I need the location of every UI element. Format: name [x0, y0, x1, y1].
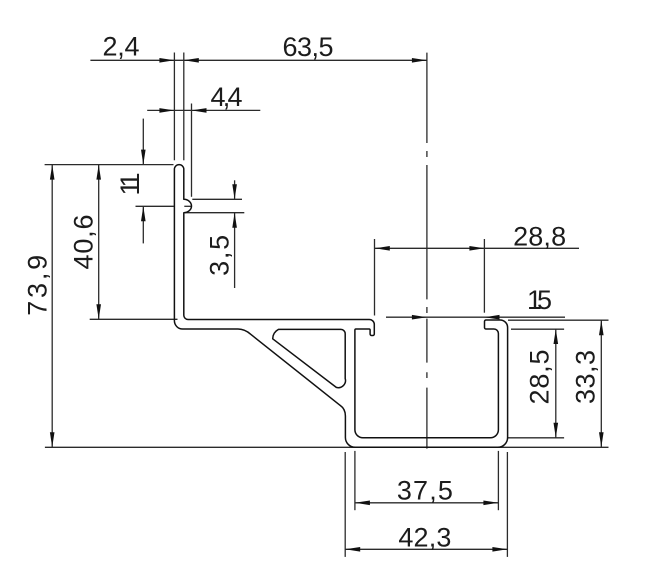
extension line bump center right (11) [184, 205, 191, 207]
arrow tip at inner left pointing left [355, 501, 370, 506]
dimension line 28,5 [555, 329, 557, 438]
dimension line 11 upper [142, 119, 144, 165]
dimension line 28,8 [375, 247, 579, 249]
dimension line 15 [386, 316, 565, 318]
extension line flange underside (28,5) [511, 328, 564, 330]
dimension line 42,3 [345, 548, 507, 550]
extension line right edge of top wall (2,4 / 63,5) [183, 53, 185, 161]
centerline (channel axis, dash-dot) [426, 53, 428, 449]
svg-text:40,6: 40,6 [69, 215, 99, 270]
extension line channel outer left (42,3) [344, 452, 346, 557]
extension line bump bottom (3,5) [185, 212, 245, 214]
dimension line 11 lower [142, 206, 144, 243]
arrow tip at wall left edge pointing right [159, 58, 174, 63]
dimension line 3,5 lower [234, 213, 236, 288]
extension line bump top (3,5) [192, 198, 242, 200]
svg-text:73,9: 73,9 [22, 255, 52, 316]
arrow tip at bump top pointing down [232, 184, 237, 199]
arrow tip at channel inner bottom pointing down [554, 423, 559, 438]
arrow tip at outer right pointing right [492, 547, 507, 552]
arrow tip at bump extent pointing left [192, 108, 207, 113]
dimension line 37,5 [355, 502, 499, 504]
dimension line 4,4 [147, 109, 260, 111]
svg-text:63,5: 63,5 [283, 32, 334, 62]
arrow tip at flange top pointing up [599, 320, 604, 335]
triangular lightening hole in diagonal brace [273, 329, 346, 387]
arrow tip at inner right pointing right [483, 501, 498, 506]
extension line flange edge (28,8) [483, 239, 485, 313]
profile outline (aluminium extrusion cross-section) [174, 165, 507, 448]
arrow tip at outer left pointing left [345, 547, 360, 552]
extension line bottom of profile (73,9 / 33,3) [45, 446, 609, 448]
extension line channel outer right (42,3) [506, 452, 508, 557]
svg-text:33,3: 33,3 [570, 350, 600, 404]
dimension line 3,5 upper [234, 180, 236, 199]
svg-text:15: 15 [527, 285, 552, 315]
svg-text:11: 11 [115, 173, 145, 196]
svg-text:42,3: 42,3 [398, 523, 451, 553]
extension line profile top (73,9 / 40,6 / 11) [45, 164, 174, 166]
arrow tip at bump bottom pointing up [232, 213, 237, 228]
dimension line 73,9 [51, 165, 53, 448]
arrow tip at hook outer pointing left [375, 246, 390, 251]
svg-text:28,5: 28,5 [525, 350, 555, 405]
extension line hook outer (28,8) [374, 239, 376, 316]
arrow tip at wall right edge pointing left [184, 58, 199, 63]
svg-text:3,5: 3,5 [205, 235, 235, 276]
arrow tip at profile top pointing up [96, 165, 101, 180]
arrow tip at bump center pointing up [141, 206, 146, 221]
arrow tip at profile bottom pointing down [50, 432, 55, 447]
svg-text:37,5: 37,5 [397, 475, 453, 505]
extension line channel inner right (37,5) [497, 451, 499, 510]
arrow tip at centerline pointing right [412, 315, 427, 320]
extension line channel inner left (37,5) [354, 451, 356, 510]
extension line left edge of top wall (2,4) [173, 53, 175, 161]
extension line bump extent (4,4) [191, 104, 193, 197]
extension line channel inner bottom (28,5) [508, 437, 564, 439]
svg-text:2,4: 2,4 [103, 31, 140, 61]
arrow tip at wall left edge pointing right [159, 108, 174, 113]
arrow tip at shelf top pointing down [96, 304, 101, 319]
dimension line 33,3 [600, 320, 602, 447]
arrow tip at profile bottom pointing down [599, 432, 604, 447]
dimension line 40,6 [98, 165, 100, 320]
extension line shelf top (40,6) [90, 318, 178, 320]
arrow tip at flange edge pointing right [469, 246, 484, 251]
dimension line 2,4 / 63,5 [90, 59, 427, 61]
svg-text:4,4: 4,4 [211, 82, 243, 112]
arrow tip at profile top pointing up [50, 165, 55, 180]
svg-text:28,8: 28,8 [513, 221, 566, 251]
extension line flange top (33,3) [508, 319, 609, 321]
arrow tip at flange edge pointing left [485, 315, 500, 320]
arrow tip at flange underside pointing up [554, 329, 559, 344]
arrow tip at profile top pointing down [141, 150, 146, 165]
arrow tip at centerline pointing right [412, 58, 427, 63]
extension line bump center left (11) [136, 205, 174, 207]
